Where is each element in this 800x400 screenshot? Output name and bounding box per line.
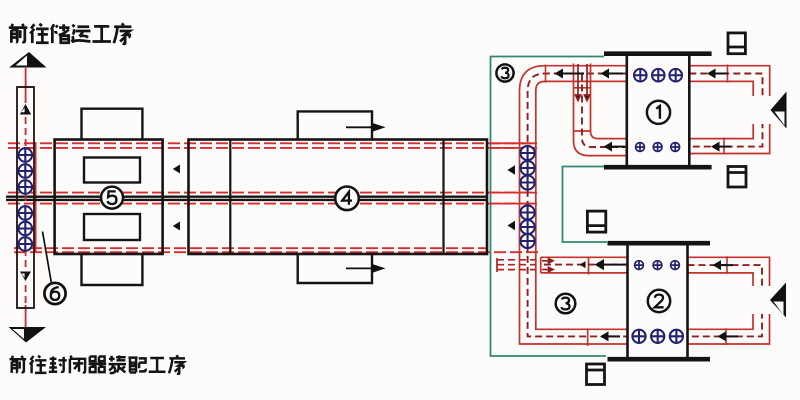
label circle 4 [335,187,359,211]
machine 1 top fixtures [634,69,682,82]
machine 4 bottom tab arrow [346,264,386,274]
red rail left connector [35,142,37,253]
machine 5 body [55,140,163,255]
flow arrow machine2 loop top [713,260,734,270]
inter-machine arrow upper (5-4 gap) [173,165,180,174]
machine 1 bottom rail bar [604,165,712,170]
centre black transfer line lower [6,199,487,201]
machine 1 right loop flow [689,74,762,147]
machine 5 lower window [84,214,140,240]
branch chute stubs [542,259,553,272]
column pallets lower group [520,205,535,248]
flow arrow bottom track right [711,142,731,152]
machine 2 right loop flow [688,265,763,336]
flow arrow loop3 bottom [600,331,620,341]
bottom red rail pair [14,248,541,252]
column pallets upper group [520,146,535,190]
top red rail pair (conveyor line) [8,143,536,148]
flow arrow machine2 loop bottom [718,331,739,341]
conveyor 6 body [17,87,34,308]
flow arrow top track right [707,69,728,79]
big arrow to storage (top left) [9,52,47,68]
tick on loop3 bottom track [587,328,589,346]
work-cell boundary (teal enclosure) [491,57,608,357]
label circle 1 [647,101,670,124]
label circle 2 [648,290,670,312]
AGV track: column + elbow to machine 1 + loop to machine 2 (outer red line) [520,66,628,344]
flow arrow branch chute [580,261,586,268]
label circle 5 [101,187,123,209]
big infeed arrow right lower [748,283,786,318]
machine 5 upper window [84,158,140,183]
infeed arrow lower (4-column gap) [507,221,515,231]
infeed arrow upper (4-column gap) [507,165,515,175]
caption: to closure assembly process (bottom left) [9,355,185,373]
centre red rail pair [8,193,536,204]
flow arrow bottom track left [604,142,626,152]
AGV track inner red line [536,81,628,329]
conveyor 6 pallet group lower [19,206,33,251]
AGV track flow line (dashed) [528,74,628,337]
small up arrow in conveyor [20,104,31,115]
machine 2 top fixtures [635,261,680,270]
flow arrow top track left b [601,69,624,79]
machine 2 top rail bar [608,241,711,246]
machine 4 body [189,140,488,255]
machine 1 bottom fixtures [636,143,680,152]
left outfeed red line [19,68,32,341]
caption: to storage process (top left) [9,23,132,43]
machine 2 right loop outer [688,257,770,344]
conveyor 6 pallet group upper [19,148,33,194]
machine 1 top rail bar [604,51,712,56]
label circle 3 upper [496,64,513,81]
big arrow to closure assembly (bottom left) [9,327,47,343]
machine 4 right divider [442,140,444,255]
machine 5 top tab [82,109,143,140]
flow arrow branch to machine 2 [595,259,627,270]
machine 1 right loop inner [689,81,753,138]
label circle 6 [43,232,66,305]
junction ticks on right loops [724,65,728,346]
label circle 3 lower [556,294,576,314]
machine 2 body sides [628,246,688,358]
machine 1 body sides [627,56,690,165]
container icon mid right [728,167,746,188]
drop chute flow line [582,74,627,148]
machine 1 right loop outer [689,66,769,154]
branch stub through column [497,258,537,272]
inter-machine arrow lower (5-4 gap) [173,222,180,231]
rail extensions to AGV column [490,143,537,203]
container icon top right [728,33,745,54]
machine 2 bottom rail bar [608,357,711,362]
machine 2 right loop inner [688,273,754,329]
branch flow line [544,264,627,266]
machine 4 top tab arrow [346,123,386,133]
branch track to machine 2 [541,257,627,275]
machine 4 left divider [229,140,231,255]
drop chute beside machine 1 (red pair) [574,64,627,156]
drop chute inner stubs with down arrows [575,64,589,101]
machine 2 bottom fixtures [632,330,683,343]
machine 5 bottom tab [82,254,143,285]
big infeed arrow right upper [749,92,787,129]
small down arrow in conveyor [20,272,31,282]
machine 4 top tab [298,111,372,139]
flow arrow top track left a [555,69,585,79]
centre black transfer line upper [6,195,487,197]
container icon above machine 2 [587,211,605,232]
container icon below machine 2 [587,364,605,385]
machine 4 bottom tab [298,254,372,283]
junction tick on top track [545,65,547,83]
